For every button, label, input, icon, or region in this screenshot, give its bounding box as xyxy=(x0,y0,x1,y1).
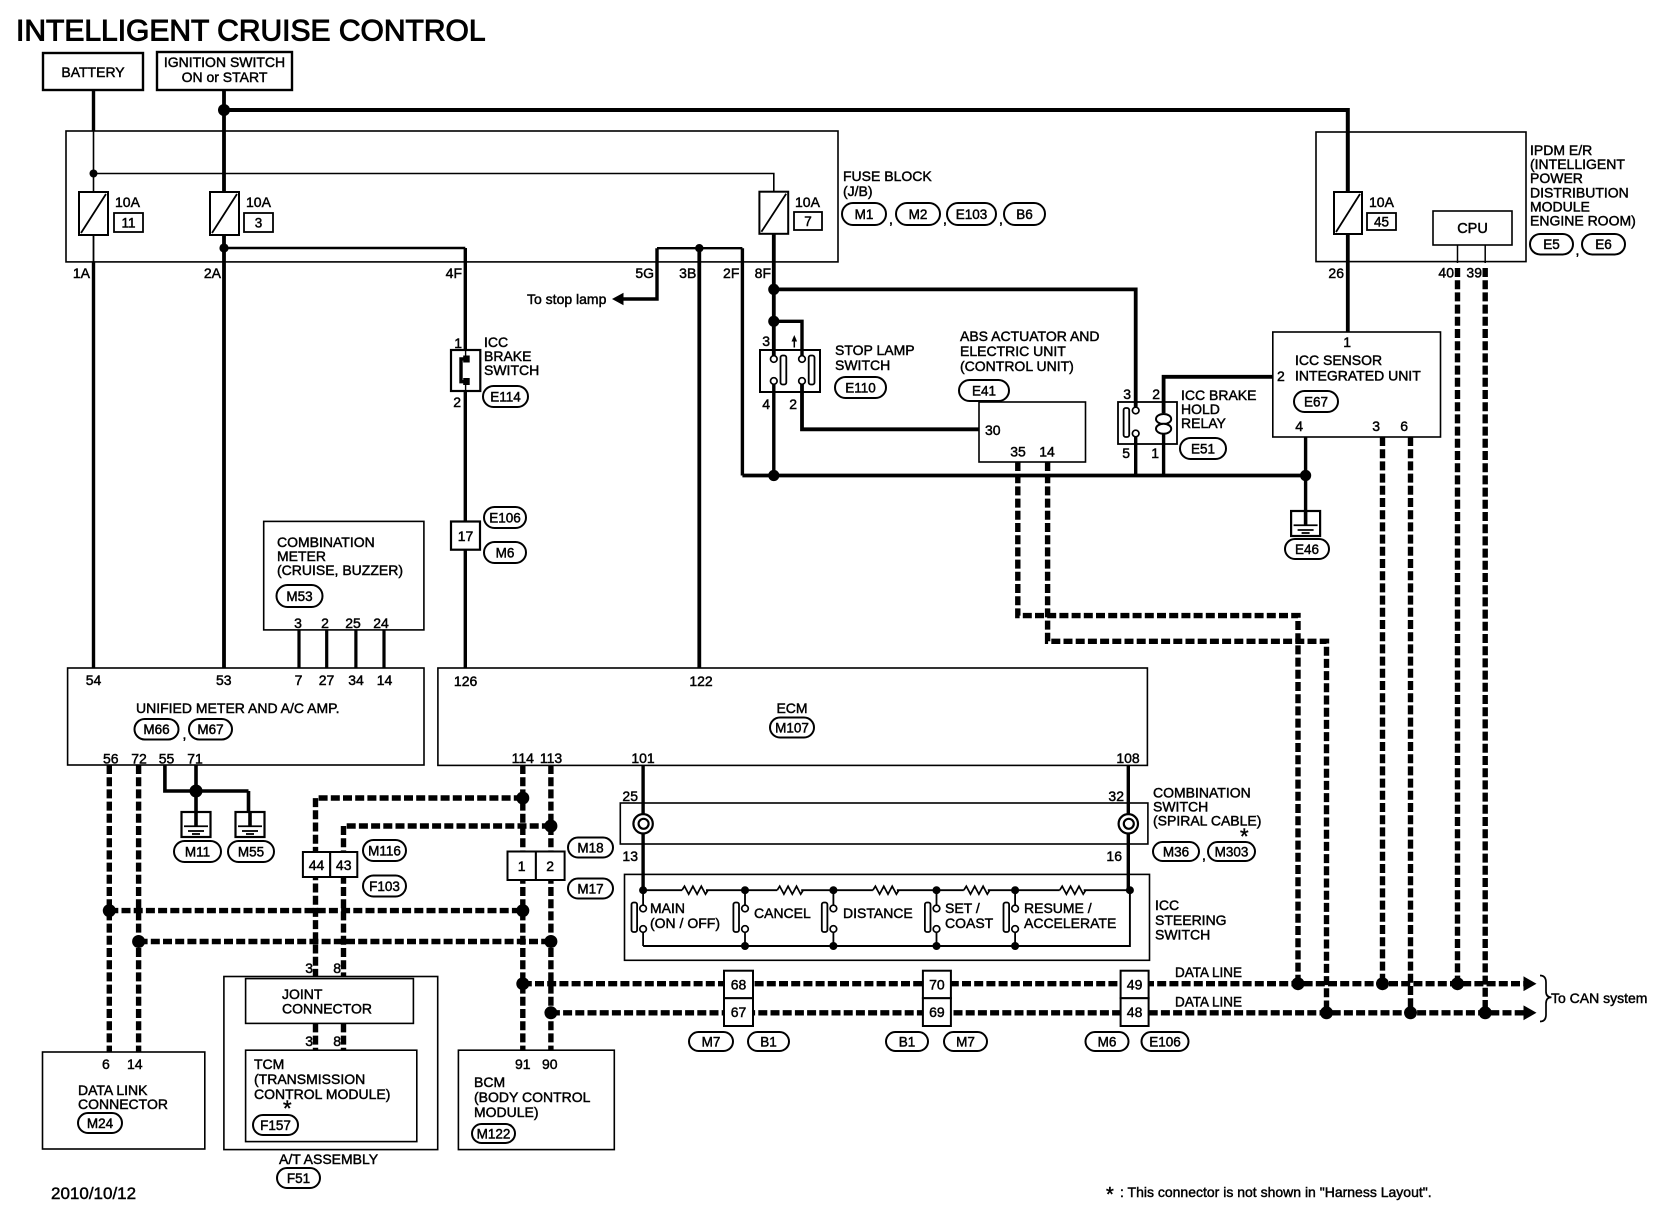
DISTANCE switch lower contact xyxy=(830,926,837,933)
dashed wire link 56 to 114 xyxy=(109,908,523,913)
svg-text:CONTROL MODULE): CONTROL MODULE) xyxy=(254,1086,390,1102)
MAIN switch upper contact xyxy=(640,905,647,912)
fuse block label xyxy=(843,168,932,199)
svg-text:3: 3 xyxy=(1123,386,1131,402)
IPDM pin labels xyxy=(1328,265,1482,282)
ICC brake switch box E114 xyxy=(451,350,480,391)
junction steering bottom bus xyxy=(741,942,749,950)
svg-text:4F: 4F xyxy=(446,265,462,281)
svg-text:3: 3 xyxy=(762,333,770,349)
combination switch spiral cable box M36 M303 xyxy=(620,803,1148,844)
connector oval M122 xyxy=(472,1124,515,1143)
stop lamp switch pin 1 contact xyxy=(799,356,806,363)
svg-text:ON or START: ON or START xyxy=(182,69,268,85)
junction 8F branch lower xyxy=(768,316,779,327)
svg-text:F103: F103 xyxy=(369,879,400,894)
svg-text:E114: E114 xyxy=(490,389,521,404)
svg-text:101: 101 xyxy=(631,750,655,766)
junction ground M11 node xyxy=(190,785,203,798)
junction CANCEL top bus xyxy=(741,886,749,894)
svg-text:E46: E46 xyxy=(1295,542,1319,557)
svg-text:IGNITION SWITCH: IGNITION SWITCH xyxy=(164,54,285,70)
wire ignition switch to fuse 3 xyxy=(222,90,226,192)
wire SET/COAST switch upper xyxy=(936,890,938,905)
svg-text:STOP LAMP: STOP LAMP xyxy=(835,342,915,358)
svg-text:A/T ASSEMBLY: A/T ASSEMBLY xyxy=(279,1151,379,1167)
svg-text:ECM: ECM xyxy=(776,700,807,716)
svg-text:E106: E106 xyxy=(1149,1034,1181,1049)
BCM pin labels xyxy=(515,1056,558,1072)
wire 8F branch to stop lamp switch pin 1 xyxy=(774,321,802,356)
svg-text:E106: E106 xyxy=(489,510,521,525)
wire 5G to stop lamp feed xyxy=(622,248,657,299)
svg-text:7: 7 xyxy=(295,672,303,688)
junction 113 CAN-L xyxy=(544,1006,557,1019)
svg-text:91: 91 xyxy=(515,1056,531,1072)
wire relay pin 5 to ground line xyxy=(1134,437,1137,476)
svg-text:69: 69 xyxy=(929,1004,945,1020)
wire below fuse 11 to 1A xyxy=(93,235,95,262)
dashed wire ICC sensor pin 6 to CAN-L line xyxy=(1408,437,1413,1013)
svg-text:,: , xyxy=(1576,242,1580,258)
svg-text:M7: M7 xyxy=(956,1034,975,1049)
svg-text:E41: E41 xyxy=(972,383,996,398)
svg-text:13: 13 xyxy=(622,848,638,864)
spiral cable symbol right xyxy=(1119,814,1138,833)
connector oval M67 xyxy=(189,719,232,740)
resistor R3 steering switch xyxy=(873,886,899,894)
DISTANCE switch upper contact xyxy=(830,905,837,912)
svg-text:M18: M18 xyxy=(577,840,603,855)
spiral cable symbol left xyxy=(633,814,652,833)
svg-text:CONNECTOR: CONNECTOR xyxy=(78,1096,168,1112)
svg-text:3: 3 xyxy=(1372,418,1380,434)
wire ICC sensor pin 4 to ground E46 xyxy=(1304,437,1307,524)
wire ECM pin 101 to spiral cable pin 25 xyxy=(641,765,644,814)
connector oval E110 xyxy=(835,377,886,398)
svg-text:2: 2 xyxy=(1277,368,1285,384)
dashed wire amp pin 56 to DLC pin 6 xyxy=(107,765,112,1052)
IPDM label xyxy=(1530,142,1636,229)
svg-text:35: 35 xyxy=(1010,444,1026,460)
steering switch position labels xyxy=(650,900,1116,931)
svg-text:2: 2 xyxy=(1152,386,1160,402)
svg-text:24: 24 xyxy=(373,615,389,631)
ICC sensor pin labels bottom xyxy=(1295,418,1408,434)
connector oval M36 xyxy=(1153,842,1199,861)
stop lamp switch pin 2 contact xyxy=(799,378,806,385)
svg-text:113: 113 xyxy=(540,750,563,766)
svg-text:BATTERY: BATTERY xyxy=(61,64,125,80)
connector oval E67 xyxy=(1294,391,1338,412)
svg-text:M24: M24 xyxy=(87,1116,114,1131)
connector oval M303 xyxy=(1208,842,1255,861)
junction steering bottom bus xyxy=(1011,942,1019,950)
dashed wire joint connector to TCM pin 8 xyxy=(341,1023,346,1050)
fuse 45 number box xyxy=(1367,213,1396,230)
IPDM E/R box E5/E6 xyxy=(1316,132,1526,262)
svg-text:14: 14 xyxy=(127,1056,143,1072)
wire meter pin 3 to amp pin 7 xyxy=(297,630,300,668)
wire steering switch bottom bus xyxy=(643,890,1130,946)
dashed wire CPU pin 39 to CAN-L line xyxy=(1482,268,1487,1013)
svg-text:ABS ACTUATOR AND: ABS ACTUATOR AND xyxy=(960,328,1100,344)
joint connector box 2 xyxy=(536,852,565,881)
SET/COAST switch bar xyxy=(925,903,931,933)
resistor R1 steering switch xyxy=(682,886,708,894)
svg-text:B1: B1 xyxy=(899,1034,916,1049)
svg-text:14: 14 xyxy=(377,672,393,688)
joint connector pin labels bottom xyxy=(305,1033,341,1049)
junction 114 line C xyxy=(516,904,529,917)
wire MAIN switch lower xyxy=(642,932,644,946)
svg-text:M303: M303 xyxy=(1215,844,1249,859)
svg-text:STEERING: STEERING xyxy=(1155,912,1227,928)
junction ABS 14 CAN-L xyxy=(1320,1006,1333,1019)
svg-text:1: 1 xyxy=(1151,445,1159,461)
DISTANCE switch bar xyxy=(822,903,828,933)
relay pin 5 contact xyxy=(1132,430,1139,437)
junction ICC sensor 3 CAN-H xyxy=(1376,977,1389,990)
svg-text:E51: E51 xyxy=(1191,441,1215,456)
junction 8F branch upper xyxy=(768,284,779,295)
wire 1A to unified meter pin 54 xyxy=(92,262,95,668)
svg-text:CPU: CPU xyxy=(1457,221,1488,237)
svg-text:3: 3 xyxy=(255,216,263,231)
wire battery feed inside fuse block xyxy=(93,131,95,192)
A/T assembly outer box F51 xyxy=(224,977,438,1150)
svg-text:SWITCH: SWITCH xyxy=(484,362,539,378)
junction 114 CAN-H xyxy=(516,977,529,990)
svg-text:2: 2 xyxy=(453,394,461,410)
stop lamp switch pin 3 contact xyxy=(771,356,778,363)
dashed wire ECM 114 branch to joint connector pin 3 xyxy=(316,798,523,977)
svg-text:,: , xyxy=(889,211,893,227)
connector oval E114 xyxy=(483,386,528,407)
wire CANCEL switch lower xyxy=(744,932,746,946)
svg-text:M107: M107 xyxy=(775,720,809,735)
joint connector box 1 xyxy=(508,852,536,881)
junction MAIN top bus xyxy=(639,886,647,894)
ABS actuator and electric unit box E41 xyxy=(979,402,1086,462)
connector oval M7 b xyxy=(944,1032,987,1051)
connector oval B1 b xyxy=(886,1032,928,1051)
junction DISTANCE top bus xyxy=(829,886,837,894)
svg-text:M116: M116 xyxy=(368,843,401,858)
svg-text:2A: 2A xyxy=(204,265,222,281)
wire ground line to E46 node xyxy=(742,474,1305,478)
svg-text:17: 17 xyxy=(458,528,474,544)
connector oval M17 xyxy=(568,879,613,899)
svg-text:DATA LINE: DATA LINE xyxy=(1175,965,1242,980)
svg-text:SET /: SET / xyxy=(945,900,980,916)
connector oval M24 xyxy=(78,1113,122,1133)
junction 113 line B xyxy=(544,820,557,833)
wire meter pin 24 to amp pin 14 xyxy=(382,630,385,668)
junction 3B internal bus xyxy=(695,244,703,252)
junction steering bottom bus xyxy=(933,942,941,950)
connector oval M18 xyxy=(568,838,613,858)
RESUME/ACCELERATE switch upper contact xyxy=(1012,905,1019,912)
svg-text:RELAY: RELAY xyxy=(1181,415,1227,431)
connector oval M1 xyxy=(842,203,886,225)
svg-text:1: 1 xyxy=(518,858,526,874)
connector oval M66 xyxy=(135,719,179,740)
stop lamp switch pin 4 contact xyxy=(771,378,778,385)
svg-text:ELECTRIC UNIT: ELECTRIC UNIT xyxy=(960,343,1066,359)
stop lamp switch bar right xyxy=(809,356,815,385)
wire stop lamp switch pin 2 to ABS pin 30 xyxy=(802,384,979,429)
wire 8F branch to relay pin 3 xyxy=(774,289,1136,407)
wire ICC brake switch pin 2 to ECM pin 126 xyxy=(464,391,467,668)
svg-text:M36: M36 xyxy=(1163,844,1189,859)
svg-text:10A: 10A xyxy=(795,194,821,210)
svg-text:,: , xyxy=(1202,847,1206,863)
junction ignition bus xyxy=(218,104,230,116)
combination meter box M53 xyxy=(264,521,424,630)
junction E46 ground node xyxy=(1300,470,1311,481)
svg-text:M67: M67 xyxy=(197,722,223,737)
svg-text:1: 1 xyxy=(1343,334,1351,350)
dashed wire joint connector to TCM pin 3 xyxy=(313,1023,318,1050)
wire meter pin 25 to amp pin 34 xyxy=(354,630,357,668)
unified meter and A/C amp box M66 M67 xyxy=(68,668,424,765)
brace to CAN system xyxy=(1540,976,1552,1022)
svg-text:UNIFIED METER AND A/C AMP.: UNIFIED METER AND A/C AMP. xyxy=(136,700,340,716)
svg-text:68: 68 xyxy=(731,977,747,993)
joint connector box xyxy=(246,979,414,1024)
SET/COAST switch lower contact xyxy=(933,926,940,933)
svg-text:E103: E103 xyxy=(956,207,988,222)
junction 2A branch xyxy=(219,243,228,252)
arrowhead to stop lamp xyxy=(612,293,624,305)
svg-text:M122: M122 xyxy=(477,1126,511,1141)
svg-text:ENGINE ROOM): ENGINE ROOM) xyxy=(1530,213,1636,229)
svg-text:122: 122 xyxy=(689,673,713,689)
svg-text:4: 4 xyxy=(1295,418,1303,434)
connector oval M7 a xyxy=(689,1032,733,1051)
fuse 10A 11 xyxy=(79,192,108,235)
arrowhead CAN-H to CAN system xyxy=(1524,976,1537,991)
svg-text:(J/B): (J/B) xyxy=(843,183,873,199)
joint connector label xyxy=(282,986,372,1017)
svg-text:ICC SENSOR: ICC SENSOR xyxy=(1295,352,1382,368)
svg-text:F51: F51 xyxy=(287,1171,310,1186)
svg-text:3: 3 xyxy=(294,615,302,631)
svg-text:INTEGRATED UNIT: INTEGRATED UNIT xyxy=(1295,368,1421,384)
stop lamp switch pin labels xyxy=(762,333,797,412)
wire 8F to stop lamp switch pin 3 xyxy=(772,234,776,356)
svg-text:90: 90 xyxy=(542,1056,558,1072)
wire battery to fuse block xyxy=(92,90,95,131)
wire branch 2A to 4F xyxy=(224,247,465,249)
ICC sensor label xyxy=(1295,352,1421,384)
svg-text:34: 34 xyxy=(348,672,364,688)
wire DISTANCE switch upper xyxy=(832,890,834,905)
wire 3B to ECM pin 122 xyxy=(697,248,701,668)
svg-text:5G: 5G xyxy=(635,265,654,281)
arrowhead CAN-L to CAN system xyxy=(1524,1005,1537,1020)
joint connector box 44 xyxy=(303,852,330,877)
svg-text:72: 72 xyxy=(131,751,147,767)
dashed wire ECM 113 branch to joint connector pin 8 xyxy=(344,826,551,977)
ECM box M107 xyxy=(438,668,1148,765)
ECM pin labels top xyxy=(454,673,713,689)
svg-text:48: 48 xyxy=(1127,1004,1143,1020)
CPU box inside IPDM xyxy=(1433,211,1512,245)
svg-text:To stop lamp: To stop lamp xyxy=(527,291,607,307)
connector oval F103 xyxy=(363,876,406,897)
ICC brake switch pin labels xyxy=(453,335,462,410)
junction steering 16 top bus xyxy=(1126,886,1134,894)
svg-text:39: 39 xyxy=(1466,265,1482,281)
svg-text:E110: E110 xyxy=(845,380,876,395)
DLC label xyxy=(78,1082,168,1112)
svg-text:To CAN system: To CAN system xyxy=(1551,990,1647,1006)
svg-text:8: 8 xyxy=(333,960,341,976)
stop lamp switch bar left xyxy=(781,356,787,385)
joint connector box 43 xyxy=(330,852,357,877)
svg-text:CANCEL: CANCEL xyxy=(754,905,811,921)
dashed wire CAN-H data line xyxy=(523,981,1524,986)
data line connector box 67 xyxy=(724,998,753,1026)
svg-text:,: , xyxy=(999,211,1003,227)
data line connector box 68 xyxy=(724,971,753,999)
svg-text:M53: M53 xyxy=(286,589,312,604)
svg-text:FUSE BLOCK: FUSE BLOCK xyxy=(843,168,932,184)
svg-text:(CRUISE, BUZZER): (CRUISE, BUZZER) xyxy=(277,562,403,578)
wire amp pin 55 to ground M55 xyxy=(165,765,249,791)
junction ICC sensor 6 CAN-L xyxy=(1404,1006,1417,1019)
svg-text:M6: M6 xyxy=(1098,1034,1117,1049)
connector 17 box E106 M6 xyxy=(451,522,480,550)
svg-text:E5: E5 xyxy=(1543,237,1560,252)
steering switch resistor bus xyxy=(643,889,1130,891)
ICC sensor integrated unit box E67 xyxy=(1273,332,1441,437)
svg-text:10A: 10A xyxy=(115,194,141,210)
ground E46 symbol xyxy=(1291,510,1320,536)
relay coil symbol xyxy=(1156,414,1171,434)
svg-text:MAIN: MAIN xyxy=(650,900,685,916)
svg-text:108: 108 xyxy=(1116,750,1140,766)
svg-text:: This connector is not shown: : This connector is not shown in "Harnes… xyxy=(1120,1184,1432,1200)
ICC steering switch label xyxy=(1155,897,1227,943)
MAIN switch bar xyxy=(632,903,638,933)
relay label xyxy=(1181,387,1256,431)
battery box xyxy=(43,53,143,90)
ground M55 symbol xyxy=(236,811,265,837)
wire 2A to unified meter pin 53 xyxy=(222,235,226,668)
svg-text:5: 5 xyxy=(1122,445,1130,461)
junction stop lamp pin 4 ground line xyxy=(768,470,779,481)
CANCEL switch bar xyxy=(733,903,739,933)
svg-text:2010/10/12: 2010/10/12 xyxy=(51,1184,136,1203)
fuse 11 number box xyxy=(114,213,143,232)
combination meter pin labels xyxy=(294,615,389,631)
junction CPU 40 CAN-H xyxy=(1451,977,1464,990)
wire CANCEL switch upper xyxy=(744,890,746,905)
svg-text:(BODY CONTROL: (BODY CONTROL xyxy=(474,1089,591,1105)
svg-text:M66: M66 xyxy=(143,722,169,737)
ECM pin labels bottom xyxy=(512,750,1140,766)
svg-text:49: 49 xyxy=(1127,977,1143,993)
svg-text:B6: B6 xyxy=(1016,207,1033,222)
svg-text:M7: M7 xyxy=(702,1034,721,1049)
ABS label xyxy=(960,328,1100,374)
wire RESUME/ACCELERATE switch lower xyxy=(1014,932,1016,946)
connector oval M55 xyxy=(228,841,274,862)
svg-text:ACCELERATE: ACCELERATE xyxy=(1024,915,1116,931)
svg-text:E6: E6 xyxy=(1595,237,1612,252)
svg-text:CONNECTOR: CONNECTOR xyxy=(282,1001,372,1017)
ignition switch box xyxy=(157,52,292,90)
dashed wire ICC sensor pin 3 to CAN-H line xyxy=(1380,437,1385,984)
ground M11 symbol xyxy=(182,811,211,837)
svg-text:6: 6 xyxy=(102,1056,110,1072)
ignition switch label xyxy=(164,54,285,85)
connector oval M107 xyxy=(770,718,814,738)
BCM body control module box M122 xyxy=(458,1050,614,1149)
CANCEL switch upper contact xyxy=(742,905,749,912)
svg-text:70: 70 xyxy=(929,977,945,993)
fuse 10A 3 xyxy=(210,192,239,235)
wire relay pin 1 to ground line xyxy=(1162,434,1165,476)
relay pin labels xyxy=(1122,386,1160,461)
connector oval F51 xyxy=(277,1168,320,1188)
svg-text:3: 3 xyxy=(305,960,313,976)
svg-text:2: 2 xyxy=(321,615,329,631)
svg-text:43: 43 xyxy=(336,857,352,873)
fuse 10A 45 xyxy=(1334,192,1362,234)
ICC brake hold relay box E51 xyxy=(1118,402,1177,444)
svg-text:DATA LINE: DATA LINE xyxy=(1175,995,1242,1010)
resistor R4 steering switch xyxy=(964,886,990,894)
ICC brake switch label xyxy=(484,334,539,378)
connector oval E46 xyxy=(1285,539,1329,559)
svg-text:M2: M2 xyxy=(909,207,928,222)
wire spiral cable pin 16 to steering switch xyxy=(1127,834,1130,891)
svg-text:MODULE): MODULE) xyxy=(474,1104,539,1120)
dashed wire ECM pin 114 to BCM pin 91 xyxy=(520,765,525,1050)
svg-text:B1: B1 xyxy=(760,1034,777,1049)
svg-text:1: 1 xyxy=(454,335,462,351)
wire fuse block internal bus 5G-2F xyxy=(657,247,742,249)
svg-text:SWITCH: SWITCH xyxy=(1155,927,1210,943)
svg-text:(CONTROL UNIT): (CONTROL UNIT) xyxy=(960,358,1074,374)
relay armature bar xyxy=(1124,408,1130,437)
relay pin 3 contact xyxy=(1132,407,1139,414)
svg-text:44: 44 xyxy=(309,857,325,873)
svg-text:M11: M11 xyxy=(185,844,210,859)
svg-text:2: 2 xyxy=(546,858,554,874)
svg-text:67: 67 xyxy=(731,1004,747,1020)
joint connector pin labels top xyxy=(305,960,341,976)
wire stop lamp switch pin 4 down xyxy=(772,384,775,476)
wire ignition bus to IPDM fuse 45 xyxy=(224,110,1348,192)
footnote xyxy=(1106,1184,1432,1206)
svg-text:SWITCH: SWITCH xyxy=(835,357,890,373)
svg-text:11: 11 xyxy=(121,216,135,231)
junction 56 line C xyxy=(103,904,116,917)
wire DISTANCE switch lower xyxy=(832,932,834,946)
resistor R5 steering switch xyxy=(1060,886,1086,894)
svg-text:(TRANSMISSION: (TRANSMISSION xyxy=(254,1071,365,1087)
svg-text:71: 71 xyxy=(187,751,203,767)
svg-text:14: 14 xyxy=(1039,444,1055,460)
connector oval M11 xyxy=(174,841,221,862)
connector oval F157 xyxy=(253,1115,298,1135)
junction 114 line A xyxy=(516,792,529,805)
